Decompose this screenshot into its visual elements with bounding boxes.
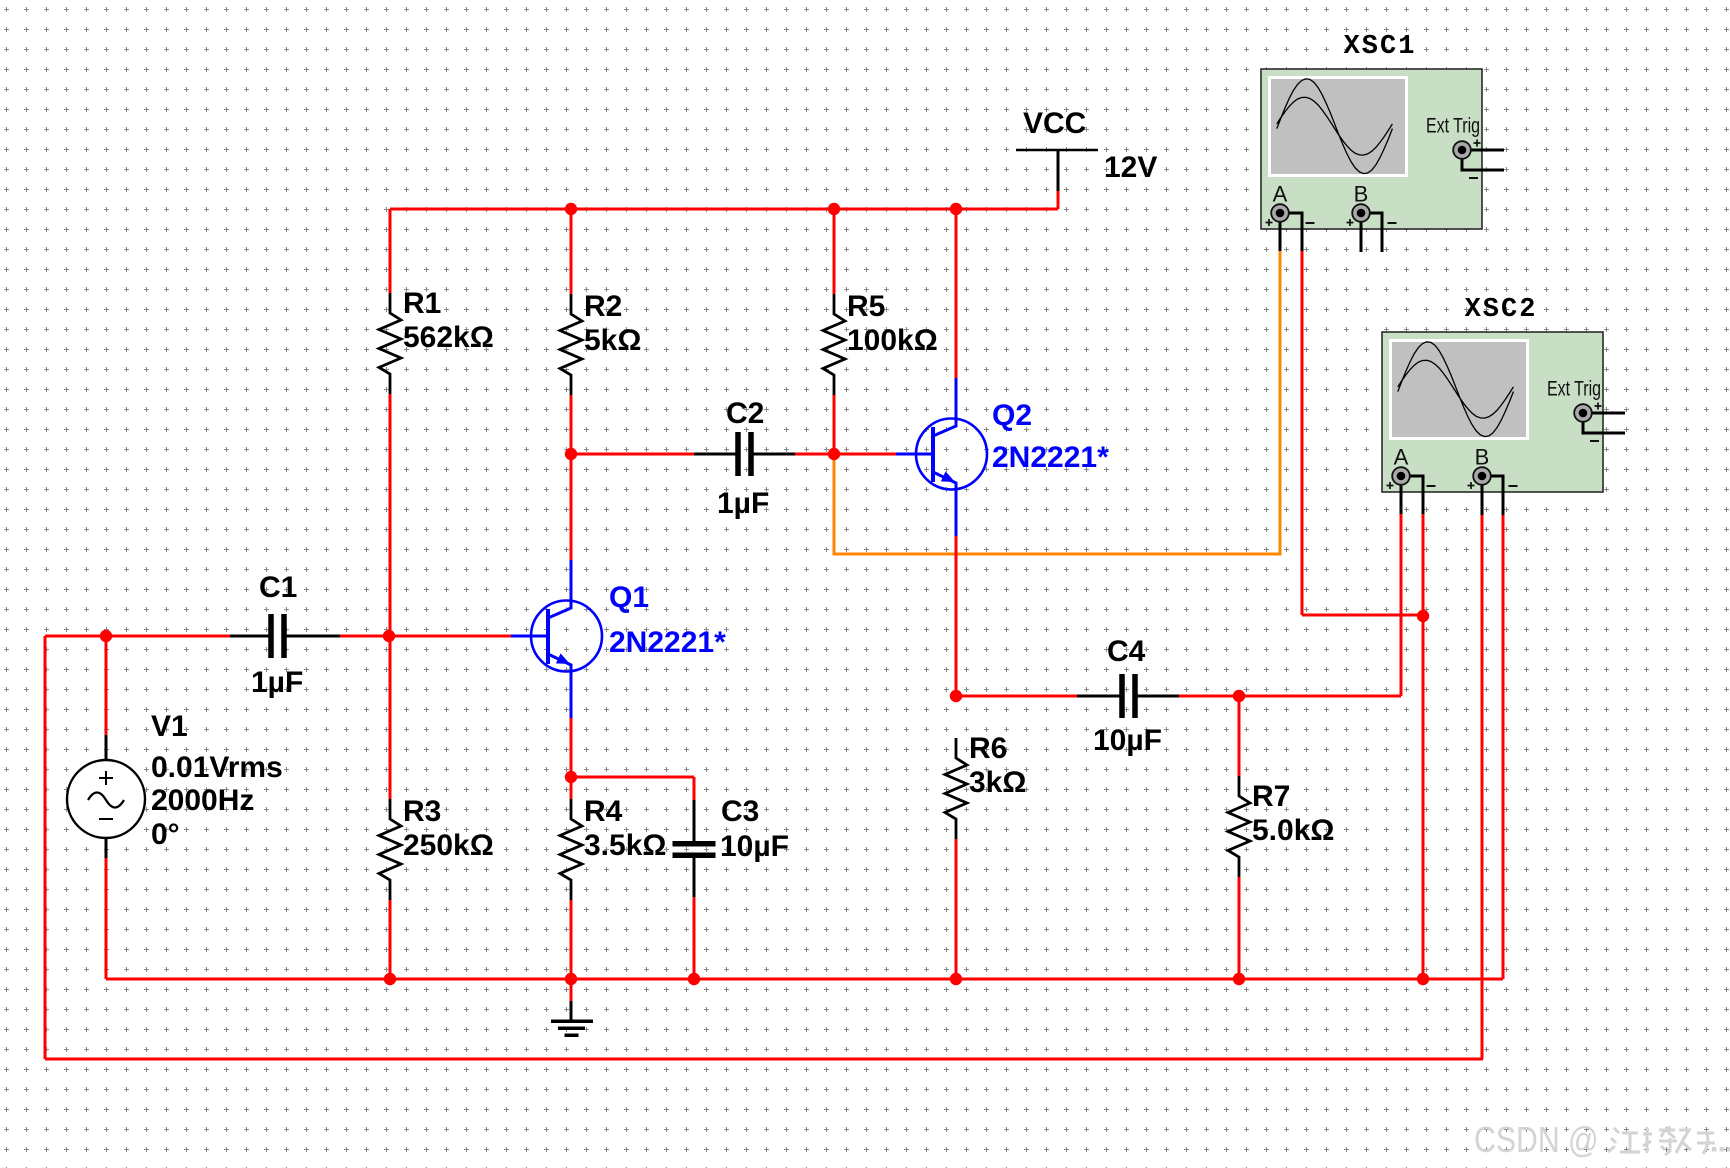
svg-text:B: B xyxy=(1475,445,1490,470)
svg-text:C2: C2 xyxy=(726,397,764,430)
svg-text:5.0kΩ: 5.0kΩ xyxy=(1252,814,1334,847)
svg-text:XSC1: XSC1 xyxy=(1344,32,1417,62)
svg-text:R2: R2 xyxy=(584,290,622,323)
svg-text:0°: 0° xyxy=(151,818,180,851)
svg-text:0.01Vrms: 0.01Vrms xyxy=(151,751,283,784)
svg-text:2000Hz: 2000Hz xyxy=(151,784,254,817)
svg-text:R4: R4 xyxy=(584,795,623,828)
svg-text:Q2: Q2 xyxy=(992,399,1032,432)
svg-text:250kΩ: 250kΩ xyxy=(403,829,494,862)
svg-text:3.5kΩ: 3.5kΩ xyxy=(584,829,666,862)
svg-text:2N2221*: 2N2221* xyxy=(609,626,726,659)
svg-text:562kΩ: 562kΩ xyxy=(403,321,494,354)
svg-text:Ext Trig: Ext Trig xyxy=(1426,115,1480,138)
svg-text:R6: R6 xyxy=(969,732,1007,765)
svg-text:C3: C3 xyxy=(721,795,759,828)
svg-text:C4: C4 xyxy=(1107,635,1146,668)
svg-text:10µF: 10µF xyxy=(720,830,789,863)
svg-text:100kΩ: 100kΩ xyxy=(847,324,938,357)
svg-text:A: A xyxy=(1273,182,1288,207)
svg-text:12V: 12V xyxy=(1104,151,1157,184)
svg-text:V1: V1 xyxy=(151,710,188,743)
svg-text:R1: R1 xyxy=(403,287,441,320)
svg-text:5kΩ: 5kΩ xyxy=(584,324,641,357)
svg-text:Q1: Q1 xyxy=(609,581,649,614)
svg-text:R7: R7 xyxy=(1252,780,1290,813)
svg-text:XSC2: XSC2 xyxy=(1465,295,1538,325)
svg-text:R5: R5 xyxy=(847,290,885,323)
svg-text:2N2221*: 2N2221* xyxy=(992,441,1109,474)
svg-text:1µF: 1µF xyxy=(717,487,769,520)
svg-text:CSDN @: CSDN @ xyxy=(1474,1121,1599,1161)
svg-text:Ext Trig: Ext Trig xyxy=(1547,378,1601,401)
svg-text:A: A xyxy=(1394,445,1409,470)
svg-text:B: B xyxy=(1354,182,1369,207)
svg-text:10µF: 10µF xyxy=(1093,724,1162,757)
svg-text:C1: C1 xyxy=(259,571,297,604)
svg-text:VCC: VCC xyxy=(1023,107,1086,140)
svg-text:1µF: 1µF xyxy=(251,666,303,699)
svg-text:R3: R3 xyxy=(403,795,441,828)
svg-text:3kΩ: 3kΩ xyxy=(969,766,1026,799)
